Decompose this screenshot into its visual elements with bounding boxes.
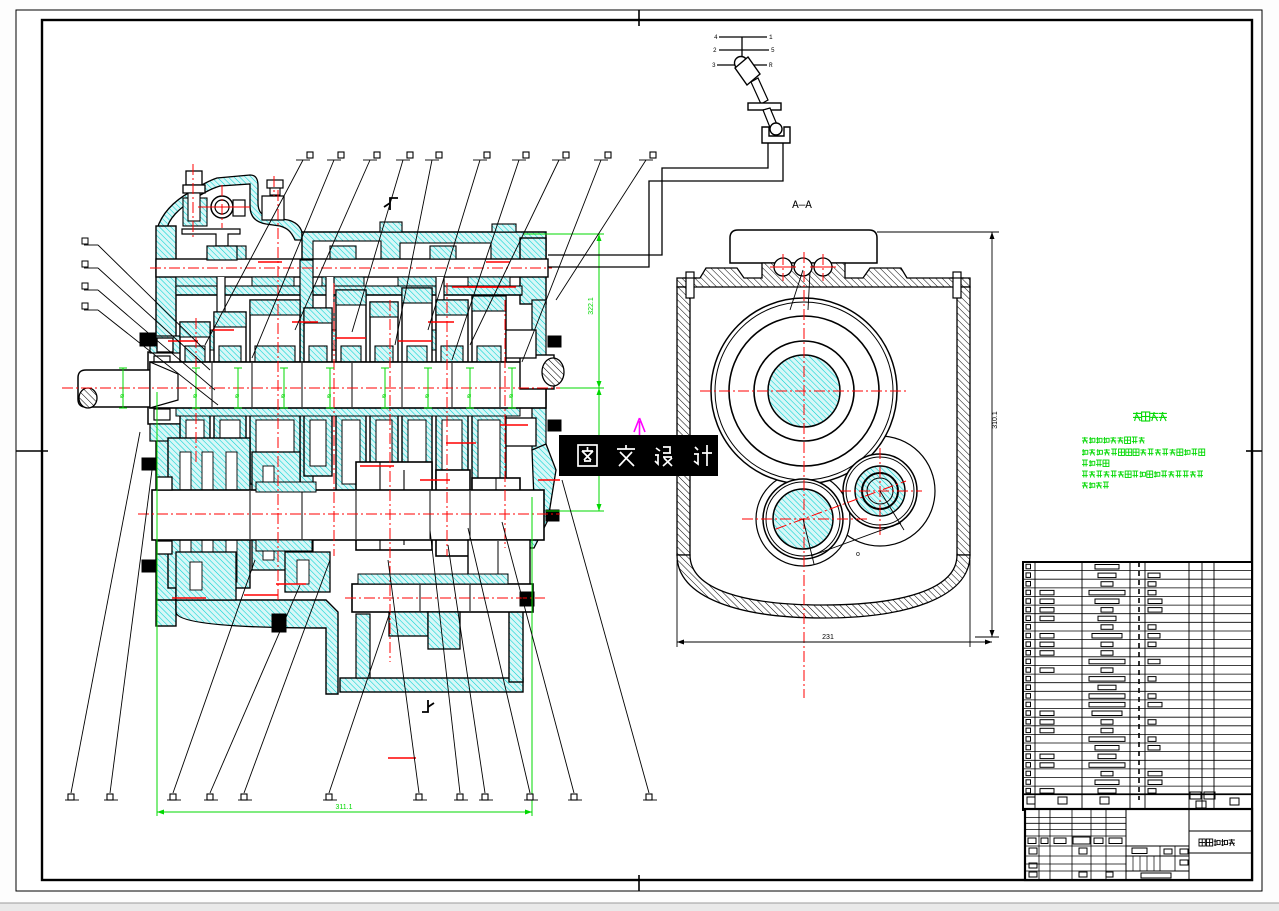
lower output shaft — [352, 584, 533, 612]
left side leader lines — [84, 244, 98, 246]
red seal mark — [388, 757, 416, 759]
A-A right wall — [957, 287, 970, 555]
BOM row 1 marks — [1026, 564, 1031, 569]
counter gear 5 — [472, 478, 520, 548]
svg-text:A—A: A—A — [792, 200, 812, 212]
green diameter mark — [283, 368, 285, 408]
left wall bearing square 2 — [157, 477, 172, 490]
A-A right gear inner ring — [862, 473, 898, 509]
counter gear 2 — [252, 452, 300, 570]
centering tick bottom — [638, 875, 640, 891]
leader line bottom — [502, 522, 574, 793]
leader line bottom — [430, 530, 460, 793]
middle bearing wall — [300, 260, 313, 590]
A-A big gear circle fill — [711, 298, 897, 484]
vertical gear centerline 4 — [389, 300, 391, 662]
tech note line 2 — [1082, 450, 1085, 452]
vertical gear centerline 1 — [195, 318, 197, 462]
fork stems from rail — [217, 277, 225, 330]
BOM row 20 marks — [1026, 728, 1031, 733]
BOM row 12 marks — [1026, 659, 1031, 664]
section arrow top — [384, 198, 398, 210]
BOM row 5 marks — [1026, 599, 1031, 604]
canister — [262, 196, 284, 220]
counter shaft bottom flange hatched — [256, 540, 312, 551]
counter-shaft big gear cluster — [168, 438, 250, 588]
top wall notch 2 — [400, 243, 491, 260]
title block marks — [1028, 838, 1036, 844]
BOM dashed vertical — [1138, 562, 1140, 800]
A-A lower-left gear cyan hub — [773, 489, 833, 549]
lever ball joint — [770, 123, 782, 135]
main shaft centerline — [62, 387, 604, 389]
red seal mark — [258, 261, 282, 263]
counter shaft top flange hatched — [256, 482, 316, 492]
oil sump bottom band — [340, 678, 523, 692]
top wall notch 1 — [313, 241, 381, 260]
left bearing cyan cap top — [150, 336, 196, 353]
counter shaft right step gears — [468, 540, 530, 588]
red seal mark — [538, 479, 560, 481]
linkage pipe down from bracket — [548, 143, 768, 255]
gear upper half — [436, 300, 468, 362]
svg-text:ø: ø — [509, 393, 514, 400]
A-A top wall hatched band — [677, 263, 970, 287]
main shaft — [150, 362, 546, 408]
BOM row 23 marks — [1026, 754, 1031, 759]
leader line bottom — [448, 545, 485, 793]
leader line top — [395, 160, 432, 345]
gear lower half — [402, 408, 432, 496]
BOM row 7 marks — [1026, 616, 1031, 621]
svg-text:o: o — [856, 551, 860, 558]
breather bolt on tower — [186, 171, 202, 185]
svg-text:ø: ø — [281, 393, 286, 400]
left wall bearing square 3 — [157, 541, 172, 554]
BOM row 11 marks — [1026, 651, 1031, 656]
green dim horizontal 311.1 — [157, 811, 532, 813]
BOM row 26 marks — [1026, 780, 1031, 785]
shift gate line 3 — [717, 64, 767, 66]
top wall bump 2 — [492, 224, 516, 232]
leader line top — [428, 160, 480, 330]
black label box 图文设计 — [559, 435, 718, 476]
strip above lower shaft — [358, 574, 508, 584]
A-A bolt hole circle 2 — [794, 258, 812, 276]
rail support boss 1 — [220, 246, 246, 259]
BOM row 9 marks — [1026, 633, 1031, 638]
BOM row 18 marks — [1026, 711, 1031, 716]
vertical centerline boss — [221, 185, 223, 228]
leader line top — [352, 160, 403, 332]
svg-text:ø: ø — [235, 393, 240, 400]
A-A left wall — [677, 287, 690, 555]
shift gate vertical — [741, 37, 743, 65]
vertical gear centerline 2 long — [277, 190, 279, 600]
red seal mark — [480, 286, 516, 288]
A-A left corner bolt — [686, 272, 694, 298]
housing left wall lower — [156, 420, 176, 626]
A-A lower-left gear outer — [763, 479, 843, 559]
vertical gear centerline 3 — [333, 283, 335, 556]
BOM last row marks — [1027, 797, 1035, 804]
svg-text:ø: ø — [382, 393, 387, 400]
svg-text:ø: ø — [425, 393, 430, 400]
housing bottom-left wall band — [156, 600, 338, 694]
sump drain bolt — [272, 614, 286, 632]
lever rod lower — [763, 108, 778, 130]
centering tick right — [1246, 450, 1262, 452]
shift gate line 2 — [719, 49, 769, 51]
centering tick top — [638, 10, 640, 26]
boss side block — [233, 200, 245, 216]
oil sump right wall — [509, 548, 523, 682]
svg-text:5: 5 — [771, 47, 775, 54]
A-A big gear hub cyan — [768, 355, 840, 427]
red seal mark — [172, 597, 206, 599]
rail centerline — [150, 267, 552, 269]
BOM row 21 marks — [1026, 737, 1031, 742]
green diameter mark — [427, 368, 429, 408]
A-A big gear circle mid — [729, 316, 879, 466]
BOM parts table — [1023, 562, 1252, 810]
output shaft centerline — [345, 597, 545, 599]
leader line top — [470, 160, 559, 345]
gear upper half — [336, 290, 366, 362]
left wall bolt 2 — [142, 458, 155, 470]
leader line bottom — [244, 560, 330, 793]
gear lower half — [472, 408, 506, 488]
right bearing block lower — [506, 418, 536, 446]
svg-text:R: R — [769, 62, 773, 69]
BOM row 27 marks — [1026, 788, 1031, 793]
right wall bolt 2 — [548, 420, 561, 431]
A-A housing top cap — [730, 230, 877, 263]
A-A dim right 310.1 — [677, 232, 999, 647]
BOM row 17 marks — [1026, 702, 1031, 707]
gear upper half — [472, 296, 506, 362]
gear lever handle — [735, 57, 760, 85]
tower circular boss — [211, 196, 233, 218]
ball socket bracket — [762, 127, 790, 143]
sump left wall — [356, 614, 370, 678]
gear below counter shaft 1 — [176, 552, 236, 600]
green diameter mark — [122, 368, 124, 408]
red seal mark — [500, 424, 528, 426]
svg-text:ø: ø — [120, 393, 125, 400]
leader line top — [295, 160, 370, 330]
tech requirements title — [1133, 412, 1141, 414]
vertical gear centerline 5 — [446, 283, 448, 556]
red seal mark — [276, 583, 306, 585]
svg-text:231: 231 — [822, 634, 834, 641]
red seal mark — [292, 321, 318, 323]
ceiling line — [176, 294, 522, 296]
A-A bolt hole circle 1 — [774, 258, 792, 276]
shift gate line 1 — [719, 36, 767, 38]
red seal mark — [452, 286, 476, 288]
right wall shaft hole + output stub — [520, 355, 554, 389]
red seal mark — [486, 261, 510, 263]
svg-text:322.1: 322.1 — [588, 297, 595, 315]
A-A small leader from bolt hole — [790, 270, 803, 310]
A-A bolt hole circle 3 — [814, 258, 832, 276]
green diameter mark — [237, 368, 239, 408]
center distance dimension — [811, 523, 901, 556]
red seal mark — [446, 442, 476, 444]
housing top wall band — [302, 232, 546, 260]
hatched strip under shaft — [176, 408, 520, 416]
green dim extension left x=157 — [156, 392, 158, 816]
leader line bottom — [110, 470, 152, 793]
gear upper half — [370, 302, 398, 362]
BOM row 2 marks — [1026, 573, 1031, 578]
red seal mark — [336, 337, 366, 339]
leader line top — [556, 160, 646, 300]
A-A red centerlines — [700, 252, 922, 698]
BOM row 3 marks — [1026, 582, 1031, 587]
BOM row 10 marks — [1026, 642, 1031, 647]
gear lower half — [370, 408, 398, 482]
red diagonal center-distance line — [776, 481, 906, 529]
window bottom strip — [0, 903, 1279, 911]
under-rail hatched strip — [176, 277, 218, 286]
red seal mark — [244, 594, 278, 596]
section arrow bottom — [422, 700, 434, 712]
svg-text:4: 4 — [714, 34, 718, 41]
leader line bottom — [388, 560, 419, 793]
left wall bearing square 1 — [157, 338, 173, 352]
leader line top — [205, 160, 303, 345]
A-A right gear bore — [843, 454, 917, 528]
leader line top — [252, 160, 334, 358]
right wall bolt 1 — [548, 336, 561, 347]
gear upper half — [180, 322, 210, 362]
tech note line 5 — [1082, 482, 1088, 484]
red seal mark — [360, 465, 394, 467]
inner ceiling hatched band — [176, 286, 522, 295]
svg-text:311.1: 311.1 — [336, 804, 353, 811]
tech note line 4 — [1082, 470, 1088, 472]
counter gear 4 — [436, 470, 470, 556]
lower shaft end cap — [520, 592, 534, 606]
green diameter mark — [511, 368, 513, 408]
right bearing block upper — [506, 330, 536, 358]
sump hanging gear 1 — [389, 612, 428, 636]
green diameter mark — [329, 368, 331, 408]
red seal mark — [468, 286, 498, 288]
svg-text:ø: ø — [327, 393, 332, 400]
vertical centerline bolt1 — [192, 164, 194, 237]
gear upper half — [250, 300, 300, 362]
BOM row 19 marks — [1026, 720, 1031, 725]
input shaft — [78, 370, 150, 407]
leader line top — [522, 160, 601, 362]
leader line bottom — [562, 480, 649, 793]
lever rod upper — [751, 78, 768, 104]
vertical gear centerline 6 — [504, 300, 506, 548]
vertical centerline bolt2 — [273, 176, 275, 196]
BOM row 14 marks — [1026, 676, 1031, 681]
leader line bottom — [468, 528, 530, 793]
sump hanging gear 2 — [428, 612, 460, 649]
gear below counter shaft 2 — [285, 552, 330, 592]
title block — [1025, 809, 1252, 880]
svg-text:ø: ø — [467, 393, 472, 400]
counter shaft centerline — [138, 513, 560, 515]
red seal mark — [420, 479, 450, 481]
svg-text:ø: ø — [193, 393, 198, 400]
BOM row 4 marks — [1026, 590, 1031, 595]
gear upper half — [304, 308, 332, 362]
gear lower half — [180, 408, 210, 462]
shift rail shaft — [156, 259, 548, 277]
housing right wall mid band — [532, 300, 546, 450]
gear lower half — [336, 408, 366, 494]
second bolt — [267, 180, 283, 188]
red seal mark — [398, 340, 432, 342]
left bearing rollers — [154, 356, 170, 367]
left input bearing block — [148, 352, 198, 424]
housing right wall angled band — [522, 444, 556, 548]
green diameter mark — [195, 368, 197, 408]
svg-text:1: 1 — [769, 34, 773, 41]
leader line bottom — [210, 585, 300, 793]
A-A right gear cyan ring — [855, 466, 905, 516]
counter shaft — [152, 490, 544, 540]
input shaft end hatched chamfer — [79, 388, 97, 408]
svg-text:310.1: 310.1 — [992, 411, 999, 429]
gear lever knob — [735, 57, 748, 70]
tech note line 1 — [1082, 437, 1088, 439]
A-A dim bottom 231 — [676, 560, 678, 647]
BOM row 16 marks — [1026, 694, 1031, 699]
rail support boss 3 — [430, 246, 456, 259]
tech note line 3 — [1082, 459, 1088, 461]
green diameter mark — [469, 368, 471, 408]
left bearing cyan cap bottom — [150, 424, 196, 441]
fork T-shape — [182, 229, 240, 246]
fork lower boss — [207, 246, 237, 260]
gearbox housing cover tower band — [157, 175, 302, 240]
A-A bottom U wall — [677, 555, 970, 618]
red seal mark — [212, 329, 234, 331]
leader line bottom — [173, 560, 255, 793]
housing left wall upper — [156, 226, 176, 358]
top wall bump 1 — [380, 222, 402, 232]
gear lower half — [436, 408, 468, 484]
BOM row 13 marks — [1026, 668, 1031, 673]
counter stepped gear 3 — [356, 462, 432, 550]
BOM row 8 marks — [1026, 625, 1031, 630]
gear lower half — [304, 408, 332, 476]
input shaft cone — [150, 362, 178, 408]
tower bolt boss — [183, 198, 207, 226]
green dim extension right x=532 — [531, 497, 533, 816]
green diameter mark — [384, 368, 386, 408]
svg-text:3: 3 — [712, 62, 716, 69]
A-A big gear circle inner — [754, 341, 854, 441]
gear lower half — [214, 408, 246, 472]
gear upper half — [214, 312, 246, 362]
left wall bolt 1 — [140, 333, 156, 346]
gear lower half — [250, 408, 300, 484]
svg-text:2: 2 — [713, 47, 717, 54]
red seal mark — [168, 340, 198, 342]
lever pivot plate — [748, 103, 781, 110]
BOM row 6 marks — [1026, 607, 1031, 612]
A-A right corner bolt — [953, 272, 961, 298]
left wall bolt 3 — [142, 560, 155, 572]
leader line bottom — [329, 612, 390, 793]
red seal mark — [428, 321, 454, 323]
BOM row 15 marks — [1026, 685, 1031, 690]
magenta pointer arrow — [634, 418, 645, 435]
leader line bottom — [71, 432, 140, 793]
green dim vertical right 322.1 — [598, 234, 600, 511]
title block company text — [1199, 839, 1205, 846]
A-A lower-left gear boss arc — [756, 472, 850, 566]
rail support boss 2 — [330, 246, 356, 259]
centering tick left — [16, 450, 48, 452]
A-A right gear boss arc — [825, 436, 935, 546]
leader line top — [452, 160, 519, 360]
right wall bolt 3 — [546, 510, 559, 521]
BOM row 24 marks — [1026, 763, 1031, 768]
housing right wall top — [520, 238, 546, 304]
BOM row 22 marks — [1026, 745, 1031, 750]
BOM row 25 marks — [1026, 771, 1031, 776]
gear upper half — [402, 288, 432, 362]
